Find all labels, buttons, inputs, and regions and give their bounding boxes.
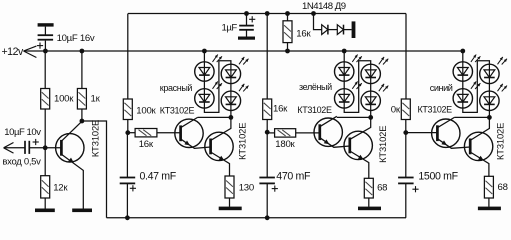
wire C input to base <box>29 147 61 149</box>
svg-text:1µF: 1µF <box>222 22 238 33</box>
wire top bias rail <box>128 13 406 15</box>
wire C 470mF to bottom rail <box>266 183 268 217</box>
svg-text:КТ3102Е: КТ3102Е <box>90 120 101 157</box>
wire red LED4 to collector node <box>230 111 232 118</box>
svg-text:вход 0,5v: вход 0,5v <box>2 156 41 167</box>
node top rail / R16к <box>285 11 290 16</box>
svg-text:130: 130 <box>239 182 254 193</box>
emitter arrow VT2 green <box>358 155 364 160</box>
wire red LED2 to LED3 (S-link) <box>204 61 231 113</box>
node +12v / green LEDs <box>342 49 347 54</box>
wire blue node to VT1 base (blue) <box>406 132 438 134</box>
wire red node down to C 0.47mF <box>126 133 128 178</box>
svg-text:КТ3102Е: КТ3102Е <box>377 126 388 163</box>
svg-text:10µF 10v: 10µF 10v <box>4 127 41 138</box>
svg-text:1500 mF: 1500 mF <box>418 171 458 183</box>
node blue LED cathode / collectors <box>487 115 492 120</box>
wire +12v rail <box>24 50 464 52</box>
node blue filter <box>403 130 408 135</box>
svg-text:зелёный: зелёный <box>299 82 332 92</box>
svg-text:КТ3102Е: КТ3102Е <box>236 123 247 160</box>
wire R16к to +12v rail <box>287 43 289 51</box>
wire base node to R12к <box>44 148 46 176</box>
emitter arrow VT1 blue <box>441 140 447 145</box>
wire top rail to R16к <box>287 14 289 21</box>
diode 1N4148 <box>322 25 328 35</box>
ground (12к) <box>35 209 55 213</box>
transistor VT2 red КТ3102Е <box>205 117 233 176</box>
wire +12v to blue LED1 <box>462 51 464 62</box>
wire R1к to collector node <box>81 109 83 121</box>
LED red 3 <box>221 57 248 84</box>
wire +12v to R100к <box>44 51 46 89</box>
capacitor 10µF 16v <box>38 35 54 40</box>
plus sign of 0.47mF <box>130 185 136 191</box>
node green filter <box>265 130 270 135</box>
ground (green emitter) <box>358 207 381 211</box>
node +12v / red LEDs <box>202 49 207 54</box>
resistor 16к (red, horizontal) <box>135 129 157 137</box>
LED blue 1 <box>453 55 480 82</box>
plus sign of input cap <box>33 139 39 145</box>
wire +12v to red LED1 <box>203 51 205 62</box>
svg-text:1N4148 Д9: 1N4148 Д9 <box>302 1 346 12</box>
svg-text:КТ3102Е: КТ3102Е <box>160 105 195 115</box>
svg-text:10µF 16v: 10µF 16v <box>57 33 95 44</box>
LED green 2 <box>335 81 362 108</box>
wire R130 to ground <box>229 198 231 207</box>
svg-text:68: 68 <box>377 182 387 193</box>
wire VT1 collector to node (blue) <box>454 116 489 118</box>
wire R16к to green node <box>266 120 268 133</box>
wire green LED1 to LED2 <box>343 81 345 89</box>
wire C 1500mF to bottom rail <box>405 183 407 217</box>
wire top rail to diodes <box>314 14 322 30</box>
svg-text:12к: 12к <box>53 182 68 193</box>
LED green 4 <box>361 84 388 111</box>
ground (1µF) <box>238 37 255 40</box>
node 0.47mF / bottom rail <box>125 215 130 220</box>
resistor 68 (blue emitter) <box>484 176 493 198</box>
capacitor 1µF <box>239 26 254 30</box>
resistor 100к (red channel) <box>123 99 132 120</box>
node top rail / C1µF <box>244 11 249 16</box>
wire blue LED4 to collector node <box>488 111 490 118</box>
wire R100к to red node <box>127 120 129 133</box>
node top rail / diodes <box>311 11 316 16</box>
plus sign of 10µF 16v <box>37 43 43 49</box>
svg-text:68: 68 <box>498 182 508 193</box>
wire blue node down to C 1500mF <box>405 133 407 178</box>
+12v supply arrow <box>24 46 37 57</box>
svg-text:синий: синий <box>430 83 453 93</box>
wire top rail down to R100к (red), crosses +12v rail <box>127 14 129 100</box>
wire C 10µF to +12v rail <box>44 41 46 51</box>
svg-text:красный: красный <box>160 83 193 93</box>
resistor 130 (red emitter) <box>225 176 234 198</box>
svg-text:16к: 16к <box>273 103 288 114</box>
capacitor 10µF 10v (input) <box>25 141 29 154</box>
wire bottom signal rail <box>107 217 407 219</box>
ground (diode clamp, vertical bar) <box>352 21 356 38</box>
LED blue 4 <box>480 84 507 111</box>
svg-text:КТ3102Е: КТ3102Е <box>495 123 506 160</box>
transistor VT1 red КТ3102Е <box>175 117 211 148</box>
emitter arrow VT2 blue <box>478 156 484 161</box>
wire ground to C 10µF <box>44 27 46 35</box>
wire R68 to ground (blue) <box>488 198 490 207</box>
resistor 1к (input collector load) <box>77 89 86 110</box>
resistor 16к (green channel) <box>263 99 272 120</box>
LED green 1 <box>335 55 362 82</box>
LED blue 2 <box>453 81 480 108</box>
ground (red emitter) <box>219 207 242 211</box>
node R16к / +12v rail <box>285 49 290 54</box>
wire red node to R16к <box>128 132 135 134</box>
svg-text:КТ3102Е: КТ3102Е <box>418 105 453 115</box>
wire C 0.47mF to bottom rail <box>126 183 128 217</box>
wire C1µF to ground <box>246 30 248 37</box>
wire blue LED2 to LED3 (S-link) <box>463 61 490 113</box>
node +12v / R1к <box>80 49 85 54</box>
wire green LED4 to collector node <box>370 111 372 118</box>
node red filter <box>125 130 130 135</box>
wire R180к to VT1 base (green) <box>296 132 320 134</box>
wire R100к to base node <box>44 109 46 148</box>
plus sign of 1µF <box>249 16 255 22</box>
emitter arrow of input transistor <box>68 158 74 163</box>
wire R16к to VT1 base (red) <box>157 132 181 134</box>
transistor VT1 blue КТ3102Е <box>432 117 471 148</box>
resistor 0к (blue channel) <box>401 99 410 120</box>
node base bias <box>43 145 48 150</box>
emitter arrow VT1 green <box>324 139 330 144</box>
wire top rail to C1µF <box>246 14 248 26</box>
wire VT1 collector to node (green) <box>337 116 371 118</box>
svg-text:180к: 180к <box>275 139 295 150</box>
svg-text:16к: 16к <box>139 139 154 150</box>
svg-text:0.47 mF: 0.47 mF <box>140 171 177 183</box>
LED green 3 <box>361 57 388 84</box>
resistor 16к (top, rail to +12v) <box>283 21 292 43</box>
wire blue LED3 to LED4 <box>488 84 490 92</box>
plus sign of 1500mF <box>412 186 418 192</box>
diode Д9 <box>337 25 343 35</box>
node top rail / green bias <box>265 11 270 16</box>
resistor 12к (input bias lower) <box>41 176 50 198</box>
LED red 4 <box>221 84 248 111</box>
resistor 180к (green, horizontal) <box>275 129 296 137</box>
wire collector node to bottom signal rail <box>82 121 107 218</box>
svg-text:16к: 16к <box>296 29 311 40</box>
wire top rail down to R16к (green), crosses +12v rail <box>266 14 268 100</box>
capacitor 1500 mF <box>398 178 414 184</box>
resistor 68 (green emitter) <box>364 178 373 198</box>
transistor VT2 blue КТ3102Е <box>464 117 492 176</box>
capacitor 0.47 mF <box>120 178 136 184</box>
ground (input emitter) <box>72 209 92 213</box>
LED blue 3 <box>480 57 507 84</box>
LED red 1 <box>195 55 222 82</box>
svg-text:100к: 100к <box>54 94 74 105</box>
svg-text:470 mF: 470 mF <box>276 170 311 182</box>
wire green LED3 to LED4 <box>370 84 372 92</box>
transistor VT1 green КТ3102Е <box>314 116 350 147</box>
node 470mF / bottom rail <box>265 215 270 220</box>
wire VT1 collector to node (red) <box>198 116 231 118</box>
node green LED cathode / collectors <box>368 115 373 120</box>
svg-text:КТ3102Е: КТ3102Е <box>297 105 332 115</box>
emitter arrow VT1 red <box>184 141 190 146</box>
node +12v / blue LEDs <box>460 49 465 54</box>
wire +12v to R1к <box>81 51 83 89</box>
transistor VT2 green КТ3102Е <box>344 117 372 178</box>
wire red LED1 to LED2 <box>203 81 205 89</box>
wire R68 to ground <box>368 198 370 207</box>
transistor VT input КТ3102Е <box>56 121 84 208</box>
wire input arrow to C input <box>4 147 25 149</box>
wire +12v to green LED1 <box>343 51 345 62</box>
wire between diodes <box>328 29 337 31</box>
wire green node down to C 470mF <box>266 132 268 177</box>
node red LED cathode / collectors <box>229 115 234 120</box>
LED red 2 <box>195 81 222 108</box>
wire red LED3 to LED4 <box>230 84 232 92</box>
wire green node to R180к <box>267 132 274 134</box>
node collector of input transistor <box>80 119 85 124</box>
wire top rail corner down to R0к (blue), crosses +12v rail <box>405 14 407 100</box>
emitter arrow VT2 red <box>219 156 225 161</box>
svg-text:+12v: +12v <box>2 46 24 58</box>
input arrow <box>4 143 14 154</box>
wire R12к to ground <box>44 198 46 209</box>
capacitor 470 mF <box>259 178 275 184</box>
wire diode to ground <box>344 29 352 31</box>
svg-text:1к: 1к <box>91 94 101 105</box>
plus sign of 470mF <box>272 186 278 192</box>
resistor 100к (input bias upper) <box>41 89 50 110</box>
ground (10µF filter cap) <box>38 23 54 26</box>
node +12v / C10µF <box>43 49 48 54</box>
ground (blue emitter) <box>478 207 501 211</box>
wire blue LED1 to LED2 <box>462 81 464 89</box>
svg-text:0к: 0к <box>391 105 401 116</box>
wire green LED2 to LED3 (S-link) <box>344 61 371 113</box>
wire R0к to blue node <box>405 120 407 133</box>
svg-text:100к: 100к <box>136 105 156 116</box>
